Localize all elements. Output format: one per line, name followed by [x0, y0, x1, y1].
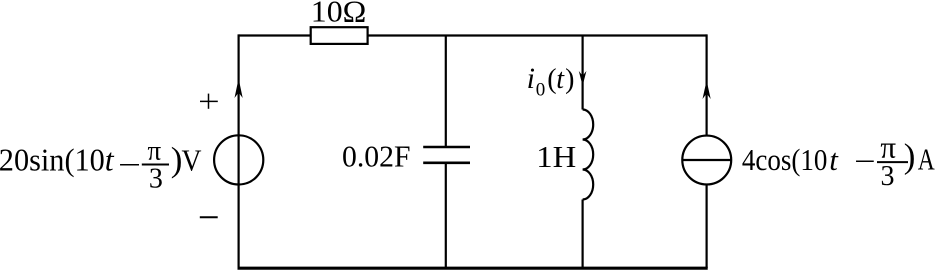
- svg-text:t: t: [105, 142, 115, 178]
- svg-text:3: 3: [149, 164, 163, 195]
- wire capacitor branch top: [445, 36, 447, 148]
- wire inductor branch bottom: [581, 200, 583, 269]
- current source IS bar: [683, 159, 732, 161]
- svg-text:10Ω: 10Ω: [311, 0, 367, 28]
- svg-text:1H: 1H: [536, 139, 576, 174]
- svg-text:i: i: [527, 62, 535, 95]
- svg-text:−: −: [854, 143, 876, 178]
- svg-text:4cos(10: 4cos(10: [742, 142, 828, 177]
- inductor L coil: [583, 110, 594, 200]
- svg-text:0.02F: 0.02F: [342, 139, 411, 174]
- wire left branch vertical: [238, 34, 240, 268]
- inductor current arrow down: [579, 71, 587, 86]
- plus sign: [200, 94, 218, 109]
- wire capacitor branch bottom: [445, 163, 447, 268]
- svg-text:t: t: [829, 142, 839, 177]
- wire right branch bottom: [705, 185, 707, 269]
- label source voltage 20sin(10t-pi/3)V: [0, 136, 202, 195]
- capacitor C top plate: [423, 146, 470, 149]
- voltage source arrow up: [235, 79, 243, 99]
- minus sign: [200, 216, 218, 218]
- svg-text:20sin(10: 20sin(10: [0, 142, 105, 178]
- label source current 4cos(10t-pi/3)A: [742, 129, 935, 192]
- current source arrow up: [703, 81, 711, 100]
- label inductor current i0(t): [527, 62, 575, 101]
- wire top rail right segment: [368, 34, 707, 36]
- svg-text:π: π: [880, 129, 896, 164]
- svg-text:A: A: [918, 141, 935, 176]
- svg-text:−: −: [118, 147, 141, 182]
- fraction bar left: [142, 164, 169, 166]
- svg-text:): ): [565, 64, 574, 95]
- current source IS circle: [682, 136, 731, 185]
- wire top rail left segment: [239, 34, 311, 36]
- svg-text:): ): [904, 136, 916, 175]
- svg-text:t: t: [556, 64, 565, 95]
- resistor R 10ohm box: [311, 27, 368, 44]
- capacitor C bottom plate: [423, 162, 470, 165]
- wire bottom rail: [238, 267, 708, 270]
- wire right branch top: [705, 34, 707, 135]
- svg-text:π: π: [148, 136, 162, 166]
- svg-text:3: 3: [881, 161, 895, 192]
- voltage source VS circle: [214, 135, 263, 184]
- wire inductor branch top: [581, 36, 583, 110]
- fraction bar right: [877, 161, 908, 163]
- svg-text:V: V: [182, 143, 203, 178]
- svg-text:0: 0: [536, 80, 546, 101]
- svg-text:(: (: [547, 64, 556, 95]
